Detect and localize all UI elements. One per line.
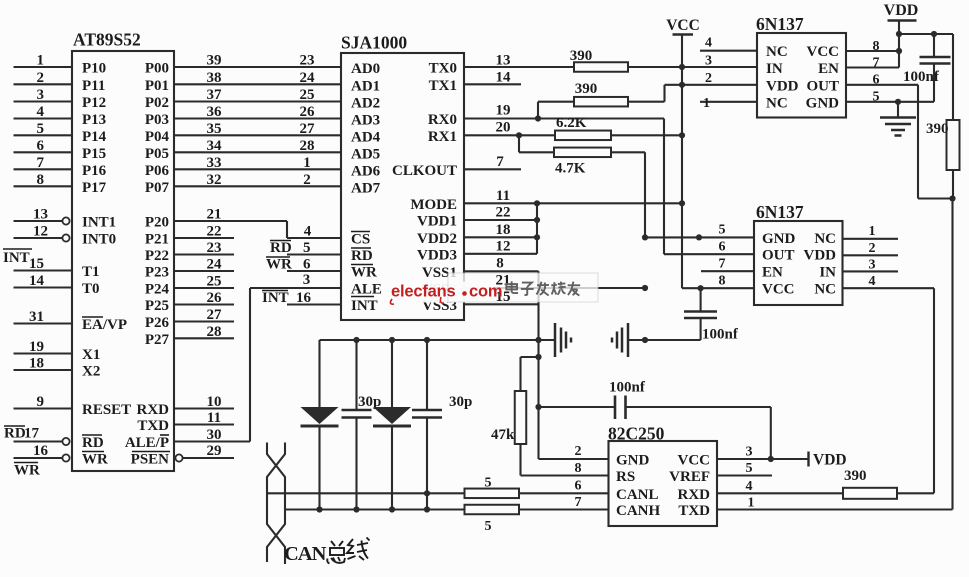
svg-text:TXD: TXD — [678, 503, 710, 519]
U2 INT stub wire (pin 16, net INT) — [262, 290, 341, 306]
U1 pin 27 stub wire — [174, 307, 234, 323]
U4 pin 6 OUT wire (from RX0 vertical) — [664, 240, 754, 255]
svg-text:28: 28 — [300, 138, 315, 154]
svg-text:OUT: OUT — [762, 248, 795, 264]
resistor R7 5 (CANL series) — [465, 476, 520, 499]
svg-text:1: 1 — [303, 155, 311, 171]
svg-text:5: 5 — [37, 121, 45, 137]
U4 pin 2 VDD stub wire — [843, 241, 899, 256]
svg-text:AD6: AD6 — [351, 163, 381, 179]
svg-text:6.2K: 6.2K — [556, 115, 587, 131]
svg-text:17: 17 — [24, 426, 40, 442]
svg-text:PSEN: PSEN — [131, 452, 170, 468]
svg-text:37: 37 — [207, 87, 223, 103]
svg-text:com: com — [469, 283, 502, 301]
svg-text:CAN: CAN — [284, 543, 327, 565]
svg-text:6: 6 — [873, 73, 880, 88]
svg-text:P15: P15 — [82, 146, 106, 162]
svg-text:P14: P14 — [82, 129, 107, 145]
svg-text:RS: RS — [616, 469, 635, 485]
U1 pin 2 wire — [14, 70, 73, 86]
svg-text:100nf: 100nf — [702, 327, 739, 343]
VDD branch wire to pull-up resistor — [899, 31, 953, 120]
svg-text:39: 39 — [207, 53, 222, 69]
svg-text:TX1: TX1 — [429, 78, 457, 94]
IC U2 SJA1000 body — [341, 33, 464, 321]
U1 pin 10 RXD stub wire — [174, 394, 234, 410]
wire U1 P03 (pin 36) to U2 AD3 (pin 26) — [174, 104, 341, 120]
svg-text:P21: P21 — [145, 232, 169, 248]
svg-text:VDD: VDD — [813, 452, 847, 469]
svg-text:6: 6 — [303, 257, 311, 273]
svg-text:33: 33 — [207, 155, 222, 171]
U1 pin 18 wire — [14, 356, 73, 372]
U3 pin 1 NC stub wire — [700, 96, 757, 111]
U3 pin 8 VCC wire to VDD — [846, 39, 902, 54]
resistor R3 6.2K — [555, 115, 611, 140]
svg-text:P03: P03 — [145, 112, 169, 128]
svg-text:390: 390 — [844, 468, 867, 484]
svg-text:TXD: TXD — [137, 418, 169, 434]
svg-text:OUT: OUT — [806, 78, 839, 94]
ground symbol under U3 — [880, 102, 916, 136]
label CAN bus (CAN zongxian) — [284, 538, 370, 566]
svg-text:3: 3 — [869, 258, 876, 273]
svg-text:5: 5 — [303, 240, 311, 256]
svg-text:100nf: 100nf — [609, 380, 646, 396]
svg-text:12: 12 — [33, 224, 48, 240]
wire U2 VDD3 (pin 12) — [464, 239, 537, 255]
svg-text:15: 15 — [29, 256, 44, 272]
U2 CLKOUT stub wire (pin 7) — [464, 154, 521, 170]
svg-text:RESET: RESET — [82, 402, 131, 418]
IC U3 6N137 body (optocoupler) — [756, 14, 846, 118]
resistor R6 47k (RS slope resistor, vertical) — [491, 354, 542, 476]
U5 pin 3 VCC wire to VDD — [717, 445, 809, 463]
svg-text:VCC: VCC — [807, 44, 840, 60]
svg-text:27: 27 — [207, 307, 223, 323]
svg-text:26: 26 — [207, 290, 223, 306]
wire U2 TX0 (pin 13) through resistor to U3 IN (pin 3) — [464, 53, 757, 69]
U4 pin 4 NC wire down to RXD resistor — [843, 274, 935, 493]
svg-text:2: 2 — [869, 241, 876, 256]
wire U1 P20 (pin 21) to U2 CS (pin 4) — [174, 207, 341, 240]
svg-text:EN: EN — [818, 61, 839, 77]
svg-text:11: 11 — [496, 188, 510, 204]
svg-text:RXD: RXD — [137, 402, 170, 418]
svg-text:AD0: AD0 — [351, 61, 380, 77]
svg-text:RD: RD — [82, 435, 104, 451]
svg-text:6: 6 — [575, 479, 582, 494]
U1 pin 31 wire — [14, 309, 73, 325]
svg-text:4: 4 — [869, 274, 876, 289]
svg-text:32: 32 — [207, 172, 222, 188]
U4 pin 7 EN stub wire — [701, 257, 754, 272]
svg-text:8: 8 — [496, 256, 504, 272]
svg-text:P20: P20 — [145, 215, 169, 231]
svg-text:RXD: RXD — [678, 487, 711, 503]
svg-text:390: 390 — [570, 48, 593, 64]
U1 pin 8 wire — [14, 172, 73, 188]
svg-text:INT: INT — [3, 250, 30, 266]
svg-text:24: 24 — [207, 257, 223, 273]
diode D2 (transient suppressor, right) — [373, 340, 411, 509]
svg-text:1: 1 — [703, 96, 710, 111]
svg-text:30p: 30p — [449, 394, 472, 410]
svg-text:CANL: CANL — [616, 487, 659, 503]
svg-text:P23: P23 — [145, 265, 169, 281]
U2 TX1 stub wire (pin 14) — [464, 70, 521, 86]
svg-text:16: 16 — [296, 290, 312, 306]
net label WR (overlined) — [14, 463, 40, 479]
wire U1 ALE/P (pin 30) to U2 ALE (pin 3) — [174, 272, 341, 443]
wire U1 P06 (pin 33) to U2 AD6 (pin 1) — [174, 155, 341, 171]
junction TX0 x VCC rail — [679, 64, 685, 70]
svg-text:16: 16 — [33, 443, 49, 459]
diode D1 (transient suppressor, left) — [301, 340, 339, 509]
twisted pair CAN bus line 1 — [267, 443, 285, 563]
wire CANL with termination — [267, 479, 609, 497]
svg-text:6: 6 — [37, 138, 45, 154]
svg-text:10: 10 — [207, 394, 222, 410]
svg-text:P04: P04 — [145, 129, 170, 145]
svg-text:7: 7 — [496, 154, 504, 170]
svg-text:1: 1 — [748, 496, 755, 511]
VCC rail vertical down to U4 VCC (pin 8) — [682, 35, 701, 289]
svg-text:29: 29 — [207, 443, 222, 459]
svg-text:EA/VP: EA/VP — [82, 317, 127, 333]
svg-text:IN: IN — [766, 61, 783, 77]
U1 pin 1 wire — [14, 53, 73, 69]
wire U2 VSS3 (pin 15) — [464, 289, 539, 305]
svg-text:21: 21 — [207, 207, 222, 223]
svg-text:RD: RD — [270, 240, 292, 256]
svg-text:23: 23 — [300, 53, 315, 69]
vertical tie MODE/VDD1/VDD2/VDD3 — [536, 203, 538, 254]
U1 pin 23 stub wire — [174, 240, 234, 256]
IC U4 6N137 body (optocoupler) — [754, 202, 843, 305]
svg-text:P24: P24 — [145, 282, 170, 298]
svg-text:RD: RD — [4, 426, 26, 442]
U1 pin 19 wire — [14, 339, 73, 355]
U1 pin 24 stub wire — [174, 257, 234, 273]
svg-text:18: 18 — [29, 356, 44, 372]
U5 pin 2 GND wire from ground vertical — [539, 444, 609, 459]
svg-text:AD4: AD4 — [351, 129, 381, 145]
svg-text:100nf: 100nf — [903, 69, 940, 85]
U4 pin 3 IN stub wire — [843, 258, 899, 273]
U5 pin 5 VREF stub wire — [717, 461, 772, 476]
svg-text:elecfans: elecfans — [391, 283, 455, 301]
svg-text:4: 4 — [304, 224, 312, 240]
svg-text:CANH: CANH — [616, 503, 660, 519]
svg-text:GND: GND — [762, 231, 796, 247]
U1 pin 13 INT1 wire with bubble — [14, 207, 70, 225]
svg-text:22: 22 — [207, 224, 222, 240]
U3 pin 4 NC stub wire — [700, 36, 757, 51]
U1 pin 14 wire — [14, 273, 73, 289]
svg-text:INT0: INT0 — [82, 232, 116, 248]
svg-text:31: 31 — [29, 309, 44, 325]
svg-text:8: 8 — [873, 39, 880, 54]
svg-text:VDD1: VDD1 — [417, 214, 457, 230]
svg-text:24: 24 — [300, 70, 316, 86]
svg-text:P13: P13 — [82, 112, 106, 128]
IC U1 AT89S52 body — [72, 30, 174, 472]
resistor R2 390 (RX0 pull-up) with wiring — [538, 81, 665, 119]
svg-text:4: 4 — [37, 104, 45, 120]
capacitor C1 100nf (VDD decoupling) — [903, 34, 951, 102]
U1 pin 7 wire — [14, 155, 73, 171]
wire U1 P01 (pin 38) to U2 AD1 (pin 24) — [174, 70, 341, 86]
U3 pin 5 GND wire — [846, 90, 934, 105]
svg-text:19: 19 — [29, 339, 44, 355]
svg-text:INT: INT — [351, 298, 378, 314]
svg-text:CLKOUT: CLKOUT — [392, 163, 457, 179]
resistor R4 4.7K from RX1 to ground rail — [519, 135, 645, 237]
U1 pin 6 wire — [14, 138, 73, 154]
svg-text:P12: P12 — [82, 95, 106, 111]
svg-text:CS: CS — [351, 232, 370, 248]
svg-text:5: 5 — [746, 461, 753, 476]
svg-text:INT: INT — [262, 290, 289, 306]
svg-text:RX1: RX1 — [428, 129, 457, 145]
svg-text:390: 390 — [926, 121, 949, 137]
svg-text:26: 26 — [300, 104, 316, 120]
U1 pin 4 wire — [14, 104, 73, 120]
U4 pin 5 GND wire — [642, 223, 754, 241]
svg-text:19: 19 — [496, 103, 511, 119]
svg-text:VDD: VDD — [766, 78, 799, 94]
U5 pin 1 TXD wire — [748, 496, 755, 511]
svg-text:47k: 47k — [491, 427, 515, 443]
svg-text:AD5: AD5 — [351, 146, 380, 162]
ground symbol (rotated) right of SJA column — [535, 323, 571, 357]
svg-text:AT89S52: AT89S52 — [73, 30, 141, 50]
svg-text:AD7: AD7 — [351, 180, 381, 196]
U1 pin 16 WR wire with bubble — [14, 443, 70, 462]
ground symbol (rotated, mirrored) under U4 cap — [612, 323, 701, 357]
svg-text:23: 23 — [207, 240, 222, 256]
svg-text:T0: T0 — [82, 281, 100, 297]
svg-text:ALE: ALE — [351, 282, 382, 298]
U1 pin 11 TXD stub wire — [174, 410, 234, 426]
svg-text:28: 28 — [207, 324, 222, 340]
svg-text:22: 22 — [496, 205, 511, 221]
svg-text:AD3: AD3 — [351, 113, 380, 129]
svg-text:7: 7 — [873, 56, 880, 71]
wire U2 RX1 (pin 20) through 6.2K to VCC rail — [464, 120, 685, 139]
resistor R8 5 (CANH series) — [465, 505, 520, 534]
U1 pin 3 wire — [14, 87, 73, 103]
svg-text:SJA1000: SJA1000 — [341, 33, 407, 53]
svg-text:NC: NC — [766, 44, 788, 60]
svg-text:390: 390 — [575, 81, 598, 97]
svg-text:4: 4 — [746, 479, 753, 494]
net label INT (overlined) — [3, 249, 32, 266]
power symbol VDD (top right) — [884, 2, 919, 51]
U1 pin 22 stub wire — [174, 224, 234, 240]
svg-text:INT1: INT1 — [82, 215, 116, 231]
capacitor C2 100nf (U4 VCC decoupling) — [684, 288, 739, 342]
svg-text:13: 13 — [33, 207, 48, 223]
U2 RD stub wire (pin 5, net RD) — [270, 240, 341, 256]
U3 pin 6 OUT wire down to TXD net — [846, 73, 956, 202]
svg-text:7: 7 — [719, 257, 726, 272]
resistor R5 390 (OUT pull-up, vertical) — [926, 120, 960, 199]
svg-text:1: 1 — [869, 224, 876, 239]
svg-text:36: 36 — [207, 104, 223, 120]
wire U2 MODE (pin 11) to VCC rail — [464, 188, 685, 206]
svg-text:P02: P02 — [145, 95, 169, 111]
svg-text:ALE/P: ALE/P — [125, 435, 169, 451]
twisted pair CAN bus line 2 — [267, 443, 285, 565]
svg-text:VDD: VDD — [804, 248, 837, 264]
svg-text:11: 11 — [207, 410, 221, 426]
svg-text:VDD2: VDD2 — [417, 231, 457, 247]
capacitor C3 30p (left) — [342, 340, 382, 510]
svg-text:7: 7 — [575, 495, 582, 510]
wire anode row to U3 VDD (pin 2) — [665, 71, 758, 88]
svg-text:WR: WR — [82, 452, 108, 468]
svg-text:P07: P07 — [145, 180, 170, 196]
svg-text:MODE: MODE — [410, 197, 457, 213]
U1 pin 25 stub wire — [174, 274, 234, 290]
U1 pin 12 INT0 wire with bubble — [14, 224, 70, 242]
svg-text:VDD: VDD — [884, 2, 919, 19]
svg-text:WR: WR — [351, 265, 377, 281]
U1 pin 15 wire — [14, 256, 73, 272]
svg-text:12: 12 — [496, 239, 511, 255]
svg-text:P16: P16 — [82, 163, 107, 179]
wire U1 P02 (pin 37) to U2 AD2 (pin 25) — [174, 87, 341, 103]
svg-text:4: 4 — [705, 36, 712, 51]
svg-text:8: 8 — [719, 274, 726, 289]
svg-text:3: 3 — [746, 445, 753, 460]
IC U5 82C250 body (CAN transceiver) — [608, 424, 717, 527]
U2 WR stub wire (pin 6, net WR) — [266, 257, 341, 273]
svg-text:GND: GND — [806, 95, 840, 111]
svg-text:6: 6 — [719, 240, 726, 255]
svg-text:P05: P05 — [145, 146, 169, 162]
svg-text:WR: WR — [266, 257, 292, 273]
svg-text:GND: GND — [616, 453, 650, 469]
svg-text:2: 2 — [37, 70, 45, 86]
svg-text:IN: IN — [819, 265, 836, 281]
wire U1 P07 (pin 32) to U2 AD7 (pin 2) — [174, 172, 341, 188]
svg-text:25: 25 — [207, 274, 222, 290]
wire U1 P04 (pin 35) to U2 AD4 (pin 27) — [174, 121, 341, 137]
U4 pin 8 VCC wire — [698, 274, 755, 292]
wire U2 VDD2 (pin 18) — [464, 222, 540, 240]
watermark elecfans.com — [388, 273, 598, 306]
svg-text:20: 20 — [496, 120, 511, 136]
svg-text:2: 2 — [705, 71, 712, 86]
svg-text:35: 35 — [207, 121, 222, 137]
svg-text:P26: P26 — [145, 315, 170, 331]
svg-text:34: 34 — [207, 138, 223, 154]
svg-text:X2: X2 — [82, 364, 100, 380]
svg-text:18: 18 — [496, 222, 511, 238]
svg-text:14: 14 — [29, 273, 45, 289]
svg-text:1: 1 — [37, 53, 45, 69]
svg-text:P10: P10 — [82, 61, 106, 77]
svg-text:VCC: VCC — [762, 282, 795, 298]
U5 pin 4 RXD wire through resistor to U4 — [717, 479, 934, 494]
svg-text:4.7K: 4.7K — [555, 161, 586, 177]
svg-text:25: 25 — [300, 87, 315, 103]
svg-text:14: 14 — [496, 70, 512, 86]
U3 pin 7 EN wire — [846, 51, 899, 71]
svg-text:VCC: VCC — [666, 17, 700, 34]
svg-text:AD2: AD2 — [351, 96, 380, 112]
svg-text:VCC: VCC — [678, 453, 711, 469]
svg-text:2: 2 — [303, 172, 311, 188]
wire U2 VSS2 (pin 21) to ground vertical — [464, 273, 648, 292]
wire CANH with termination — [285, 495, 609, 513]
svg-text:5: 5 — [485, 519, 492, 534]
svg-text:3: 3 — [705, 54, 712, 69]
U5 pin 8 RS wire — [521, 461, 609, 476]
svg-text:5: 5 — [485, 476, 492, 491]
svg-text:38: 38 — [207, 70, 222, 86]
wire U1 P05 (pin 34) to U2 AD5 (pin 28) — [174, 138, 341, 154]
svg-text:P06: P06 — [145, 163, 170, 179]
capacitor C4 30p (right) — [412, 340, 472, 510]
svg-text:WR: WR — [14, 463, 40, 479]
svg-text:3: 3 — [37, 87, 45, 103]
U4 pin 1 NC stub wire — [843, 224, 899, 239]
resistor R1 390 (TX0 series) — [570, 48, 628, 72]
svg-text:P01: P01 — [145, 78, 169, 94]
svg-text:X1: X1 — [82, 347, 100, 363]
svg-text:8: 8 — [37, 172, 45, 188]
wire U1 P00 (pin 39) to U2 AD0 (pin 23) — [174, 53, 341, 69]
U1 pin 26 stub wire — [174, 290, 234, 306]
wire U2 VDD1 (pin 22) — [464, 205, 540, 224]
svg-text:AD1: AD1 — [351, 78, 380, 94]
power symbol VDD (at U5 VCC) — [809, 452, 847, 469]
svg-text:6N137: 6N137 — [756, 14, 804, 34]
svg-text:EN: EN — [762, 265, 783, 281]
U1 pin 9 wire — [14, 394, 73, 410]
U1 pin 17 RD wire with bubble and label RD17 — [4, 426, 70, 446]
net TXD vertical right side — [717, 199, 953, 510]
ground vertical from VSS pins down to ground node — [537, 271, 539, 459]
svg-text:13: 13 — [496, 53, 511, 69]
svg-text:NC: NC — [814, 282, 836, 298]
svg-text:9: 9 — [37, 394, 45, 410]
svg-text:P22: P22 — [145, 248, 169, 264]
svg-text:82C250: 82C250 — [608, 424, 665, 444]
svg-text:P11: P11 — [82, 78, 105, 94]
wire ground rail (top of diode/cap group) — [320, 337, 539, 343]
svg-text:RD: RD — [351, 248, 373, 264]
svg-text:5: 5 — [719, 223, 726, 238]
wire U2 VSS1 (pin 8) — [464, 256, 539, 272]
resistor R9 390 (RXD series) — [843, 468, 897, 499]
svg-text:P17: P17 — [82, 180, 107, 196]
svg-text:30: 30 — [207, 427, 222, 443]
svg-text:P00: P00 — [145, 61, 169, 77]
svg-text:RX0: RX0 — [428, 112, 457, 128]
svg-text:5: 5 — [873, 90, 880, 105]
wire U2 RX0 (pin 19) to U4 OUT via vertical — [464, 103, 664, 255]
svg-text:8: 8 — [575, 461, 582, 476]
svg-text:P27: P27 — [145, 332, 170, 348]
power symbol VCC — [666, 17, 700, 35]
svg-text:27: 27 — [300, 121, 316, 137]
